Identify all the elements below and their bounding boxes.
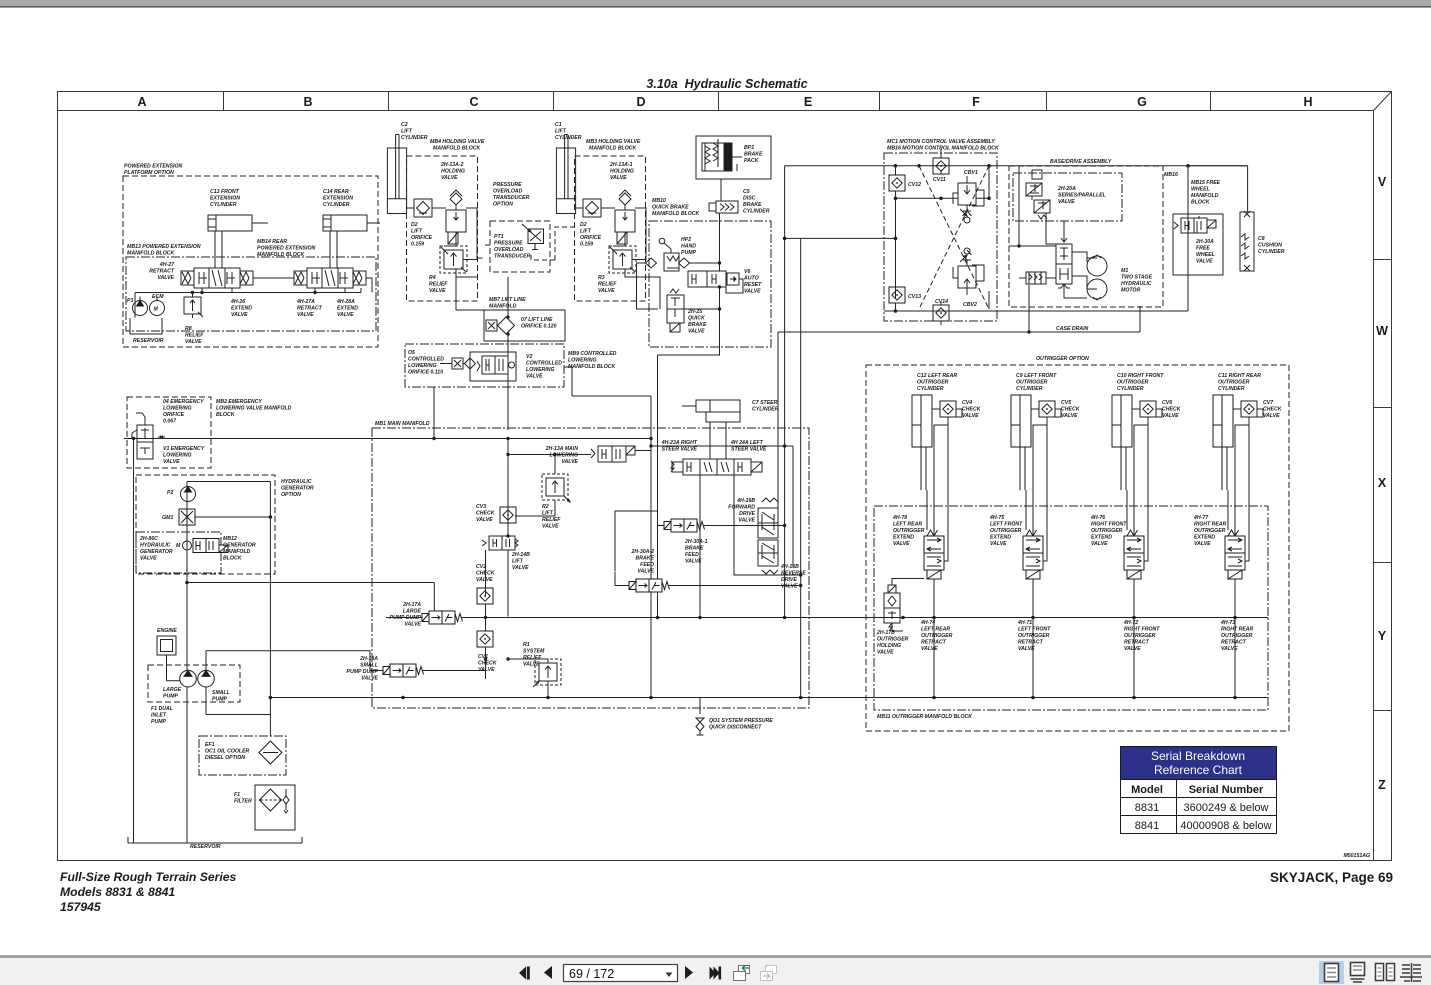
svg-text:CV14: CV14 (935, 299, 948, 305)
svg-text:C13 FRONTEXTENSIONCYLINDER: C13 FRONTEXTENSIONCYLINDER (210, 189, 240, 208)
svg-text:Model: Model (1131, 784, 1163, 796)
svg-text:M: M (154, 307, 159, 313)
svg-text:M: M (176, 543, 181, 549)
svg-text:Models 8831 & 8841: Models 8831 & 8841 (60, 885, 175, 899)
svg-text:C: C (469, 95, 478, 109)
wire: C2 lift circuit (407, 205, 478, 277)
cylinder C14 (323, 215, 380, 268)
outrigger cylinder C10 (1112, 395, 1132, 490)
previous view button (734, 965, 750, 980)
check valve CV2 (477, 588, 493, 604)
svg-text:MB10: MB10 (652, 198, 666, 204)
next page button (685, 966, 693, 979)
wire: quick brake circuit (637, 213, 744, 355)
reverse drive valve 4H-15B (758, 540, 778, 574)
outrigger manifold MB11 dash-dot box (874, 506, 1268, 710)
check valve orifice D2 (right) (583, 199, 601, 217)
svg-text:V: V (1378, 175, 1387, 189)
svg-text:MANIFOLD BLOCK: MANIFOLD BLOCK (127, 251, 176, 257)
svg-text:8831: 8831 (1135, 802, 1159, 814)
steer cylinder C7 (682, 400, 740, 422)
motion control dash-dot box (884, 153, 997, 321)
wire: generator branch (187, 482, 434, 844)
system pressure quick disconnect QO1 (696, 698, 704, 736)
svg-text:B: B (303, 95, 312, 109)
disc brake cylinder C5 (709, 201, 738, 213)
wire: motion control piping (785, 149, 1248, 325)
svg-text:QO1 SYSTEM PRESSURE: QO1 SYSTEM PRESSURE (709, 718, 773, 724)
right strip inner line (1373, 111, 1375, 861)
brake feed valve 2H-30A-1 (664, 519, 705, 532)
emergency lowering dashed box (127, 397, 211, 468)
drawing frame border (58, 92, 1392, 861)
page number input box (564, 965, 678, 982)
single page view button (selected) (1319, 961, 1344, 984)
wire: C1 lift circuit (576, 205, 661, 309)
counterbalance valve CBV1 (953, 176, 984, 223)
lift line manifold box (484, 310, 565, 341)
lift valve 2H-14B (482, 536, 518, 550)
holding valve 2H-13A-1 (615, 190, 635, 244)
MB4 holding valve manifold dashed box (407, 156, 478, 301)
header band bottom line (58, 110, 1374, 112)
hand pump HP2 (646, 238, 690, 271)
outrigger retract label 4H-71 (1017, 620, 1051, 652)
svg-text:MANIFOLD BLOCK: MANIFOLD BLOCK (652, 211, 701, 217)
row letters (1376, 175, 1388, 792)
labels PT1 (493, 182, 531, 260)
relief valve R4 (440, 246, 467, 273)
pump P3 and motor (133, 301, 165, 316)
emergency lowering valve V1 (132, 413, 153, 459)
svg-text:SKYJACK, Page 69: SKYJACK, Page 69 (1270, 870, 1393, 885)
column letters (137, 95, 1312, 109)
outrigger retract label 4H-73 (1220, 620, 1254, 652)
wire: steer circuit (651, 166, 801, 698)
free wheel manifold box (1173, 214, 1223, 275)
svg-text:E: E (804, 95, 812, 109)
outrigger extend valve 4H-77 (1225, 530, 1245, 579)
brake pack BP1 box (696, 136, 771, 179)
svg-text:MC1 MOTION CONTROL VALVE ASSEM: MC1 MOTION CONTROL VALVE ASSEMBLY (887, 139, 995, 145)
svg-text:MB13 POWERED EXTENSION: MB13 POWERED EXTENSION (127, 244, 201, 250)
svg-text:CBV1: CBV1 (964, 170, 978, 176)
generator manifold dash-dot box (136, 532, 221, 573)
pressure overload transducer option dashed box (490, 221, 550, 272)
row strip ticks (1374, 260, 1392, 711)
cylinder C2 (387, 135, 406, 214)
oil cooler EF1 dash-dot box (199, 736, 286, 775)
svg-text:CV11: CV11 (933, 177, 946, 183)
generator valve 2H-86C (176, 539, 228, 553)
svg-text:CV12: CV12 (908, 182, 921, 188)
wire: outrigger bus connections (892, 425, 1249, 698)
svg-text:CASE DRAIN: CASE DRAIN (1056, 326, 1089, 332)
main lowering valve 2H-13A (591, 446, 635, 462)
check valve CV4 (940, 401, 956, 417)
svg-text:P3: P3 (127, 298, 133, 304)
manifold block MB13/MB14 dash-dot box (126, 257, 376, 331)
svg-text:3.10a Hydraulic Schematic: 3.10a Hydraulic Schematic (646, 77, 807, 91)
svg-text:Reference Chart: Reference Chart (1154, 763, 1243, 777)
continuous scroll view button (1351, 963, 1365, 983)
check valve CV12 (889, 175, 905, 191)
check valve CV6 (1140, 401, 1156, 417)
svg-text:POWERED EXTENSION: POWERED EXTENSION (124, 164, 182, 170)
outrigger option dashed box (866, 365, 1289, 731)
quick brake manifold dashed box (649, 221, 771, 347)
labels MB4 block (401, 122, 485, 294)
orifice 07 symbol (486, 317, 515, 334)
svg-text:Serial Number: Serial Number (1189, 784, 1264, 796)
outrigger cylinder C11 (1213, 395, 1233, 490)
controlled lowering valve V2 (477, 356, 515, 374)
valve 4H-27/4H-26 (front extension) (181, 268, 253, 288)
orifice O5 symbol (452, 358, 476, 369)
outrigger retract label 4H-72 (1123, 620, 1160, 652)
svg-text:A: A (137, 95, 146, 109)
svg-text:MANIFOLD BLOCK: MANIFOLD BLOCK (568, 364, 617, 370)
large pump dump valve 2H-17A (422, 611, 463, 624)
left steer valve 4H-24A (717, 459, 762, 475)
system relief valve R1 (533, 659, 561, 687)
base/drive dashed box (1009, 166, 1163, 307)
check valve CV13 (889, 287, 905, 303)
svg-text:QUICK BRAKE: QUICK BRAKE (652, 205, 689, 211)
wire: case drain (778, 285, 1140, 508)
bottom toolbar (0, 955, 1431, 958)
shuttle block symbol (1026, 272, 1046, 284)
wire: base/drive piping (1009, 166, 1097, 298)
series/parallel manifold dash-dot box (1013, 173, 1122, 221)
forward drive valve 4H-16B (758, 498, 778, 538)
two speed shift valve (1056, 236, 1072, 288)
series/parallel valve 2H-20A (1026, 170, 1050, 219)
svg-text:BASE/DRIVE ASSEMBLY: BASE/DRIVE ASSEMBLY (1050, 159, 1112, 165)
svg-text:MB1 MAIN MANIFOLD: MB1 MAIN MANIFOLD (375, 421, 430, 427)
svg-text:W: W (1376, 324, 1388, 338)
filter symbol (259, 789, 289, 813)
svg-text:OUTRIGGER OPTION: OUTRIGGER OPTION (1036, 356, 1089, 362)
svg-text:ORIFICE 0.120: ORIFICE 0.120 (521, 324, 557, 330)
main manifold dash-dot box (372, 428, 809, 708)
filter F1 box (255, 785, 295, 830)
relief valve R8 (184, 297, 203, 317)
dual inlet pump P1 dashed box (148, 665, 240, 702)
large pump (180, 670, 197, 687)
cylinder C1 (556, 135, 575, 214)
last page button (710, 967, 722, 980)
svg-text:MB9 CONTROLLED: MB9 CONTROLLED (568, 351, 617, 357)
outrigger retract label 4H-74 (920, 620, 953, 652)
outrigger cylinder C9 (1011, 395, 1031, 490)
check valve CV7 (1241, 401, 1257, 417)
corner diagonal (1374, 92, 1392, 111)
svg-text:MB11 OUTRIGGER MANIFOLD BLOCK: MB11 OUTRIGGER MANIFOLD BLOCK (877, 714, 973, 720)
svg-text:157945: 157945 (60, 900, 101, 914)
check valve orifice D2 (414, 199, 432, 217)
two page view button (1376, 964, 1395, 981)
first page button (519, 967, 530, 980)
wire: platform option piping (135, 278, 372, 318)
previous page button (544, 966, 552, 979)
small pump (198, 670, 215, 687)
check valve CV14 (933, 305, 949, 321)
browser top bar (0, 0, 1431, 6)
wire: return to tank (128, 837, 302, 843)
svg-text:69 / 172: 69 / 172 (569, 967, 614, 981)
check valve CV11 (933, 158, 949, 174)
wire: transducer option (478, 227, 575, 260)
svg-text:CYLINDER: CYLINDER (752, 407, 779, 413)
wire: motion control crossover dashed (919, 166, 989, 309)
svg-text:Z: Z (1378, 778, 1386, 792)
counterbalance valve CBV2 (953, 248, 984, 295)
svg-text:Y: Y (1378, 629, 1387, 643)
wire: free wheel link (1187, 192, 1189, 214)
svg-text:MB4 HOLDING VALVE: MB4 HOLDING VALVE (430, 139, 485, 145)
svg-text:M50151AG: M50151AG (1343, 853, 1370, 859)
hydraulic motor M1 (1087, 255, 1107, 300)
lift relief valve R2 (542, 474, 570, 502)
quick brake valve 2H-25 (667, 289, 684, 332)
svg-text:Full-Size Rough Terrain Series: Full-Size Rough Terrain Series (60, 870, 237, 884)
svg-text:PLATFORM OPTION: PLATFORM OPTION (124, 170, 174, 176)
wire: engine shaft / pump suction (167, 651, 384, 715)
engine block (157, 636, 176, 655)
cooler symbol (259, 741, 282, 764)
pump P2 (181, 487, 196, 502)
wire: brake feed lines (615, 511, 801, 586)
svg-text:C7 STEER: C7 STEER (752, 400, 778, 406)
svg-text:X: X (1378, 476, 1387, 490)
lowering valve solid box (470, 352, 516, 381)
svg-text:D: D (636, 95, 645, 109)
generator option dashed box (136, 475, 275, 574)
wire: right trunk (997, 166, 1248, 311)
check valve CV3 (500, 507, 516, 523)
svg-text:CBV2: CBV2 (963, 302, 977, 308)
labels: powered extension section (124, 164, 358, 346)
header column ticks (224, 92, 1211, 111)
wire: lift line (456, 277, 508, 430)
svg-text:ENGINE: ENGINE (157, 628, 177, 634)
generator GM1 (179, 509, 195, 525)
MB3 holding valve manifold dashed box (575, 156, 646, 301)
outrigger holding valve 2H-17B (884, 585, 900, 631)
reservoir symbol (130, 318, 162, 334)
outrigger cylinder C12 (912, 395, 932, 490)
controlled lowering dash-dot box (405, 344, 564, 387)
wire: controlled lowering (434, 364, 651, 439)
auto reset valve V6 (688, 271, 739, 287)
svg-text:CV13: CV13 (908, 294, 921, 300)
svg-text:MB16: MB16 (1164, 172, 1178, 178)
labels MB3 block (555, 122, 641, 294)
svg-text:MB3 HOLDING VALVE: MB3 HOLDING VALVE (586, 139, 641, 145)
valve 4H-27A/4H-28A (rear extension) (294, 268, 366, 288)
svg-text:07 LIFT LINE: 07 LIFT LINE (521, 317, 553, 323)
svg-text:MANIFOLD BLOCK: MANIFOLD BLOCK (433, 146, 482, 152)
svg-text:MB16 MOTION CONTROL MANIFOLD B: MB16 MOTION CONTROL MANIFOLD BLOCK (887, 146, 1000, 152)
svg-text:LOWERING: LOWERING (568, 358, 597, 364)
transducer PT1 symbol (522, 224, 544, 250)
wire: outrigger cylinder feeds (927, 409, 1263, 561)
outrigger extend valve 4H-76 (1124, 530, 1144, 579)
footer left (60, 870, 237, 914)
wire: main return bus (271, 697, 1269, 699)
svg-text:F: F (972, 95, 980, 109)
cylinder C13 (208, 215, 268, 268)
cushion cylinder C8 (1240, 211, 1254, 271)
svg-text:G: G (1137, 95, 1147, 109)
wire: main pressure bus (461, 617, 1268, 619)
free wheel valve 2H-30A (1174, 216, 1216, 233)
svg-text:RESERVOIR: RESERVOIR (133, 338, 164, 344)
wire: emergency lowering line (124, 439, 651, 844)
svg-text:Serial Breakdown: Serial Breakdown (1151, 749, 1245, 763)
svg-text:H: H (1303, 95, 1312, 109)
right steer valve 4H-23A (671, 459, 717, 475)
next view button (disabled) (761, 966, 777, 981)
svg-text:40000908 & below: 40000908 & below (1180, 820, 1271, 832)
outrigger extend valve 4H-78 (924, 530, 944, 579)
svg-text:8841: 8841 (1135, 820, 1159, 832)
svg-text:MANIFOLD BLOCK: MANIFOLD BLOCK (589, 146, 638, 152)
outrigger extend valve 4H-75 (1023, 530, 1043, 579)
svg-text:MANIFOLD: MANIFOLD (489, 304, 517, 310)
svg-text:QUICK DISCONNECT: QUICK DISCONNECT (709, 725, 762, 731)
wire: lift trunk verticals (651, 355, 658, 698)
small pump dump valve 2H-18A (383, 664, 424, 677)
relief valve R3 (609, 246, 636, 273)
powered extension option dashed box (123, 176, 378, 347)
check valve CV1 (477, 631, 493, 647)
holding valve 2H-13A-2 (446, 190, 466, 244)
serial breakdown reference chart (1121, 747, 1277, 834)
brake feed valve 2H-30A-2 (629, 579, 670, 592)
two page scroll view button (1400, 963, 1422, 982)
svg-text:2H-30AFREEWHEELVALVE: 2H-30AFREEWHEELVALVE (1195, 239, 1215, 265)
svg-text:RESERVOIR: RESERVOIR (190, 844, 221, 850)
wire: lift feed lines (370, 439, 651, 698)
svg-text:GM1: GM1 (162, 515, 173, 521)
svg-text:ECM: ECM (152, 294, 164, 300)
orifice 04 symbol (158, 436, 165, 439)
svg-text:P2: P2 (167, 490, 173, 496)
check valve CV5 (1039, 401, 1055, 417)
svg-text:3600249 & below: 3600249 & below (1183, 802, 1268, 814)
